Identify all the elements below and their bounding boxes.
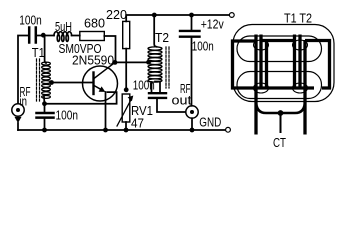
potentiometer RV1 47 — [122, 94, 130, 122]
svg-text:100n: 100n — [192, 39, 214, 54]
hole ellipse top left — [254, 40, 269, 50]
wire +12v rail to C4 — [191, 15, 193, 30]
winding wire bar R1 — [293, 35, 296, 90]
wire 220 bottom to RV1 (crosses collector wire, no dot) — [125, 49, 127, 90]
svg-text:CT: CT — [273, 135, 286, 150]
terminal +12v (open circle) — [229, 13, 234, 18]
wire RF in to ground rail — [17, 123, 19, 130]
wire cap to node A — [37, 35, 44, 37]
capacitor C3 100n (output, horizontal plates) — [149, 93, 166, 98]
wire node A to 5uH — [44, 35, 55, 37]
node RV1 top junction dot — [124, 87, 129, 92]
wire 5uH to R1 — [72, 35, 80, 37]
inductor L1 5uH — [54, 32, 72, 42]
wire T1 winding bottom to node — [43, 97, 46, 104]
wire RF in vertical and top bend — [18, 36, 28, 104]
terminal GND (open circle) — [226, 127, 231, 132]
node RF out shield ground dot — [190, 128, 195, 133]
hole ellipse bottom left — [254, 83, 269, 93]
core outer outline — [233, 25, 334, 102]
capacitor C1 100n (input, vertical plates) — [29, 28, 36, 43]
core top hole outline — [237, 36, 322, 62]
winding wire right outer loop — [305, 41, 330, 89]
svg-text:in: in — [20, 94, 28, 109]
transformer T1 winding — [45, 36, 46, 64]
svg-text:T1 T2: T1 T2 — [284, 11, 312, 26]
node T1 bottom junction dot — [42, 101, 47, 106]
svg-text:220: 220 — [106, 7, 127, 22]
svg-text:680: 680 — [84, 16, 105, 31]
svg-text:100n: 100n — [56, 108, 79, 123]
wire T2 bottom hook to output cap — [155, 82, 160, 93]
svg-text:T1: T1 — [32, 45, 45, 60]
svg-text:100n: 100n — [133, 78, 155, 93]
node collector junction dot — [113, 60, 118, 65]
svg-text:out: out — [172, 93, 192, 108]
wire T1 bottom to emitter (step up) — [45, 92, 117, 104]
transistor Q1 2N5590 circle — [83, 66, 118, 101]
capacitor C2 100n (under T1, horizontal plates) — [37, 113, 54, 118]
svg-text:T2: T2 — [155, 30, 169, 45]
node +12v rail C4 drop dot — [189, 13, 194, 18]
wire 680 to collector node — [104, 36, 115, 61]
node C2 ground junction dot — [42, 128, 47, 133]
winding wire bar R2 — [298, 35, 301, 90]
node T2 tap junction dot — [146, 60, 151, 65]
svg-text:2N5590: 2N5590 — [72, 53, 114, 68]
capacitor C4 100n (decoupling, horizontal plates) — [180, 31, 200, 37]
center tap junction dot — [278, 110, 284, 116]
resistor R1 680 — [80, 32, 105, 41]
node T1 tap junction dot — [49, 80, 54, 85]
node RV1 ground dot — [124, 128, 129, 133]
node A junction dot — [41, 33, 46, 38]
wire T1 node to C2 and C2 to ground rail — [44, 104, 46, 112]
wire 220 top to +12v rail — [126, 15, 229, 21]
core bottom hole outline — [237, 72, 322, 99]
wire ground rail — [18, 129, 226, 131]
transformer T2 core (dashed) — [166, 47, 169, 88]
center tap lead — [280, 113, 282, 133]
transformer T1 core (dashed) — [37, 59, 40, 101]
svg-text:47: 47 — [131, 116, 144, 131]
transistor Q1 emitter lead with arrow — [94, 86, 103, 91]
hole ellipse bottom right — [293, 83, 308, 93]
winding wire left outer loop — [233, 41, 315, 88]
hole ellipse top right — [293, 40, 308, 50]
wire emitter down to ground rail — [105, 92, 107, 130]
transistor Q1 base bar — [92, 73, 94, 95]
wire RV1 bottom to ground rail — [125, 122, 127, 130]
resistor R2 220 — [123, 21, 130, 48]
svg-text:+12v: +12v — [201, 17, 224, 32]
wire collector node to T2 tap — [115, 61, 148, 63]
svg-text:GND: GND — [199, 115, 221, 130]
winding wire bar L2 — [259, 35, 262, 90]
wire output cap to RF out terminal — [157, 99, 186, 112]
winding wire bar L1 — [254, 35, 257, 135]
center tap U curve — [256, 101, 305, 113]
wire C4 to RF out shield to ground — [191, 38, 193, 106]
physical transformer drawing — [233, 11, 335, 151]
svg-text:100n: 100n — [19, 13, 42, 28]
winding wire bar L3 — [265, 40, 268, 90]
transistor Q1 collector lead — [94, 62, 115, 78]
transformer T2 winding — [154, 15, 156, 47]
wire T1 tap to base — [52, 82, 94, 84]
node emitter/ground junction dot — [103, 128, 108, 133]
winding wire bar R3 — [303, 40, 306, 135]
terminal RF in — [12, 104, 24, 116]
winding wire top bridge — [261, 39, 296, 42]
node +12v rail T2 drop dot — [152, 13, 157, 18]
svg-text:5uH: 5uH — [55, 19, 72, 34]
terminal RF out — [186, 106, 198, 118]
